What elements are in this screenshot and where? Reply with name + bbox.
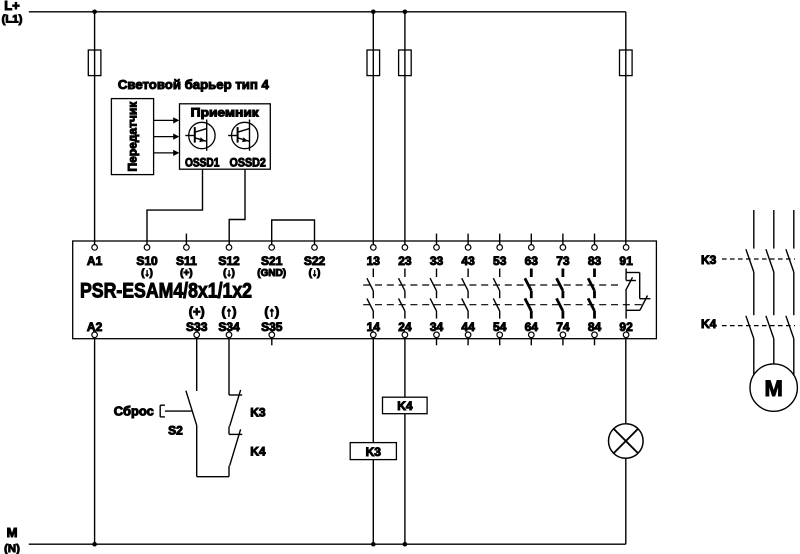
- svg-text:S22: S22: [304, 254, 326, 268]
- wire jumper S21 to S22: [272, 220, 315, 245]
- terminal 33: [436, 234, 438, 245]
- svg-text:(↓): (↓): [223, 268, 235, 279]
- pushbutton S2 actuator: [160, 405, 191, 417]
- wire phase 3 to motor: [793, 339, 795, 388]
- net M bottom supply rail: [29, 543, 626, 545]
- svg-text:L+: L+: [4, 0, 20, 13]
- receiver box: [180, 104, 271, 169]
- contact 13-14: [367, 269, 373, 319]
- terminal 44: [467, 338, 469, 346]
- terminal A1: [92, 245, 98, 251]
- wire 14 to coil K3: [372, 338, 374, 443]
- terminal 13: [371, 245, 377, 251]
- contactor contact K4 phase 2: [766, 316, 774, 339]
- svg-text:63: 63: [525, 254, 539, 268]
- contact 63-64: [525, 269, 531, 319]
- wire S34 to contact K3: [228, 338, 230, 395]
- wire L+ to fuse F3: [404, 12, 406, 50]
- svg-text:S10: S10: [136, 254, 158, 268]
- wire fuse F3 to terminal 23: [404, 76, 406, 245]
- junction A2 on M rail: [92, 542, 97, 547]
- terminal 74: [562, 338, 564, 346]
- terminal 14: [371, 332, 377, 338]
- feedback contact K4: [229, 429, 242, 466]
- fuse F2: [367, 50, 380, 76]
- svg-text:(N): (N): [4, 543, 20, 554]
- wire OSSD2 to S12: [229, 169, 245, 244]
- svg-text:43: 43: [461, 254, 475, 268]
- contact 23-24: [399, 269, 405, 319]
- pushbutton S2 blade: [186, 391, 197, 426]
- svg-text:74: 74: [556, 320, 570, 334]
- svg-text:92: 92: [619, 320, 633, 334]
- fuse F3: [399, 50, 412, 76]
- svg-text:S34: S34: [218, 320, 240, 334]
- terminal 63: [530, 234, 532, 245]
- svg-text:S11: S11: [176, 254, 197, 268]
- svg-text:84: 84: [588, 320, 602, 334]
- transmitter box: [111, 99, 153, 175]
- junction coil K4 on M rail: [403, 542, 408, 547]
- terminal 23: [402, 245, 408, 251]
- terminal S11: [185, 234, 187, 245]
- svg-text:K3: K3: [366, 445, 382, 459]
- svg-text:83: 83: [588, 254, 602, 268]
- relay coil K4: [383, 397, 428, 414]
- wire lamp H1 to M rail: [625, 458, 627, 544]
- mechanical linkage line 2: [363, 304, 643, 306]
- terminal 24: [402, 332, 408, 338]
- contact 33-34: [430, 269, 436, 319]
- svg-text:A2: A2: [87, 320, 103, 334]
- wire terminal A2 to M rail: [94, 338, 96, 545]
- wire coil K3 to M rail: [372, 460, 374, 545]
- svg-text:13: 13: [367, 254, 381, 268]
- terminal 64: [530, 338, 532, 346]
- contact 91-92 NC pair: [626, 269, 651, 319]
- svg-text:54: 54: [493, 320, 507, 334]
- terminal 53: [499, 234, 501, 245]
- contact 43-44: [462, 269, 468, 319]
- svg-text:91: 91: [619, 254, 633, 268]
- contactor contact K3 phase 2: [766, 249, 774, 272]
- terminal 43: [467, 234, 469, 245]
- wire phase 3 supply: [793, 210, 795, 249]
- junction A1 on L+ rail: [92, 10, 97, 15]
- terminal 73: [562, 234, 564, 245]
- terminal 83: [594, 234, 596, 245]
- svg-text:(L1): (L1): [2, 14, 23, 26]
- fuse F4: [620, 50, 633, 76]
- svg-text:33: 33: [430, 254, 444, 268]
- svg-text:(↓): (↓): [141, 268, 153, 279]
- terminal S33: [194, 332, 200, 338]
- svg-text:(+): (+): [180, 268, 193, 279]
- wire OSSD1 to S10: [147, 169, 203, 244]
- svg-text:23: 23: [398, 254, 412, 268]
- svg-text:73: 73: [556, 254, 570, 268]
- mechanical linkage line 1: [363, 284, 622, 286]
- wire contact K4 to bottom join: [228, 466, 230, 477]
- svg-text:S35: S35: [261, 320, 283, 334]
- lamp H1: [609, 424, 644, 459]
- junction 23 feed on L+ rail: [403, 10, 408, 15]
- safety relay U1 PSR-ESAM4/8x1/1x2: [73, 241, 657, 339]
- svg-text:(↑): (↑): [264, 304, 279, 319]
- linkage K3 contactor: [722, 258, 795, 260]
- terminal 84: [594, 338, 596, 346]
- svg-text:14: 14: [367, 320, 381, 334]
- wire terminal 92 to lamp H1: [625, 338, 627, 424]
- svg-text:PSR-ESAM4/8x1/1x2: PSR-ESAM4/8x1/1x2: [80, 279, 252, 302]
- svg-text:24: 24: [398, 320, 412, 334]
- svg-text:53: 53: [493, 254, 507, 268]
- svg-text:(↓): (↓): [309, 268, 321, 279]
- svg-text:K3: K3: [250, 405, 266, 419]
- svg-text:(↑): (↑): [222, 304, 237, 319]
- svg-text:S2: S2: [168, 424, 183, 438]
- contact 73-74: [557, 269, 563, 319]
- contactor contact K4 phase 3: [786, 316, 794, 339]
- svg-text:K4: K4: [397, 399, 413, 413]
- svg-text:K4: K4: [701, 317, 717, 331]
- junction 13 feed on L+ rail: [371, 10, 376, 15]
- motor M1: [750, 364, 797, 411]
- wire L+ rail corner to fuse F4: [625, 12, 627, 50]
- wire phase 2 to motor: [773, 339, 775, 388]
- wire phase 3 mid: [793, 272, 795, 315]
- terminal S21: [269, 245, 275, 251]
- svg-text:Световой барьер тип 4: Световой барьер тип 4: [118, 77, 270, 92]
- junction coil K3 on M rail: [371, 542, 376, 547]
- svg-text:Передатчик: Передатчик: [126, 101, 140, 172]
- svg-text:Приемник: Приемник: [191, 106, 260, 120]
- svg-text:(+): (+): [189, 304, 205, 319]
- wire phase 2 mid: [773, 272, 775, 315]
- svg-text:S12: S12: [218, 254, 240, 268]
- wire S33 to S2: [196, 338, 198, 391]
- svg-text:K4: K4: [250, 444, 266, 458]
- contact 53-54: [493, 269, 499, 319]
- contactor contact K3 phase 3: [786, 249, 794, 272]
- terminal A2: [92, 332, 98, 338]
- wire phase 2 supply: [773, 210, 775, 249]
- svg-text:OSSD1: OSSD1: [185, 157, 220, 169]
- fuse F1: [88, 50, 101, 76]
- contact 83-84: [588, 269, 594, 319]
- terminal S22: [312, 245, 318, 251]
- contactor contact K3 phase 1: [746, 249, 754, 272]
- phototransistor OSSD2: [228, 120, 258, 151]
- terminal 91: [623, 245, 629, 251]
- wire phase 1 mid: [753, 272, 755, 315]
- wire phase 1 to motor: [753, 339, 755, 388]
- svg-text:Сброс: Сброс: [114, 404, 154, 418]
- wire bottom join: [197, 476, 229, 478]
- svg-text:S21: S21: [261, 254, 283, 268]
- wire phase 1 supply: [753, 210, 755, 249]
- svg-text:34: 34: [430, 320, 444, 334]
- phototransistor OSSD1: [185, 120, 215, 151]
- light beam arrow 1: [154, 117, 180, 123]
- feedback contact K3: [229, 390, 242, 427]
- svg-text:A1: A1: [87, 254, 103, 268]
- svg-text:K3: K3: [701, 253, 717, 267]
- terminal S12: [226, 245, 232, 251]
- wire coil K4 to M rail: [404, 414, 406, 545]
- terminal 54: [499, 338, 501, 346]
- wire 24 to coil K4: [404, 338, 406, 398]
- relay coil K3: [350, 443, 396, 460]
- wire fuse F1 to terminal A1: [94, 76, 96, 245]
- wire fuse F4 to terminal 91: [625, 76, 627, 245]
- wire L+ to fuse F2: [372, 12, 374, 50]
- svg-text:S33: S33: [186, 320, 208, 334]
- terminal 92: [623, 332, 629, 338]
- wire L+ to fuse F1: [94, 12, 96, 50]
- linkage K4 contactor: [722, 325, 795, 327]
- light beam arrow 3: [154, 150, 180, 156]
- wire contact K3 to contact K4: [228, 426, 230, 434]
- svg-text:OSSD2: OSSD2: [230, 157, 266, 169]
- svg-text:64: 64: [525, 320, 539, 334]
- wire fuse F2 to terminal 13: [372, 76, 374, 245]
- terminal S35: [271, 338, 273, 346]
- terminal 34: [436, 338, 438, 346]
- svg-text:M: M: [765, 376, 783, 401]
- net L+ top supply rail: [29, 11, 626, 13]
- light beam arrow 2: [154, 134, 180, 140]
- wire S2 to bottom join: [196, 425, 198, 476]
- svg-text:M: M: [7, 525, 18, 540]
- contactor contact K4 phase 1: [746, 316, 754, 339]
- terminal S10: [144, 245, 150, 251]
- svg-text:(GND): (GND): [257, 268, 286, 279]
- svg-text:44: 44: [461, 320, 475, 334]
- terminal S34: [226, 332, 232, 338]
